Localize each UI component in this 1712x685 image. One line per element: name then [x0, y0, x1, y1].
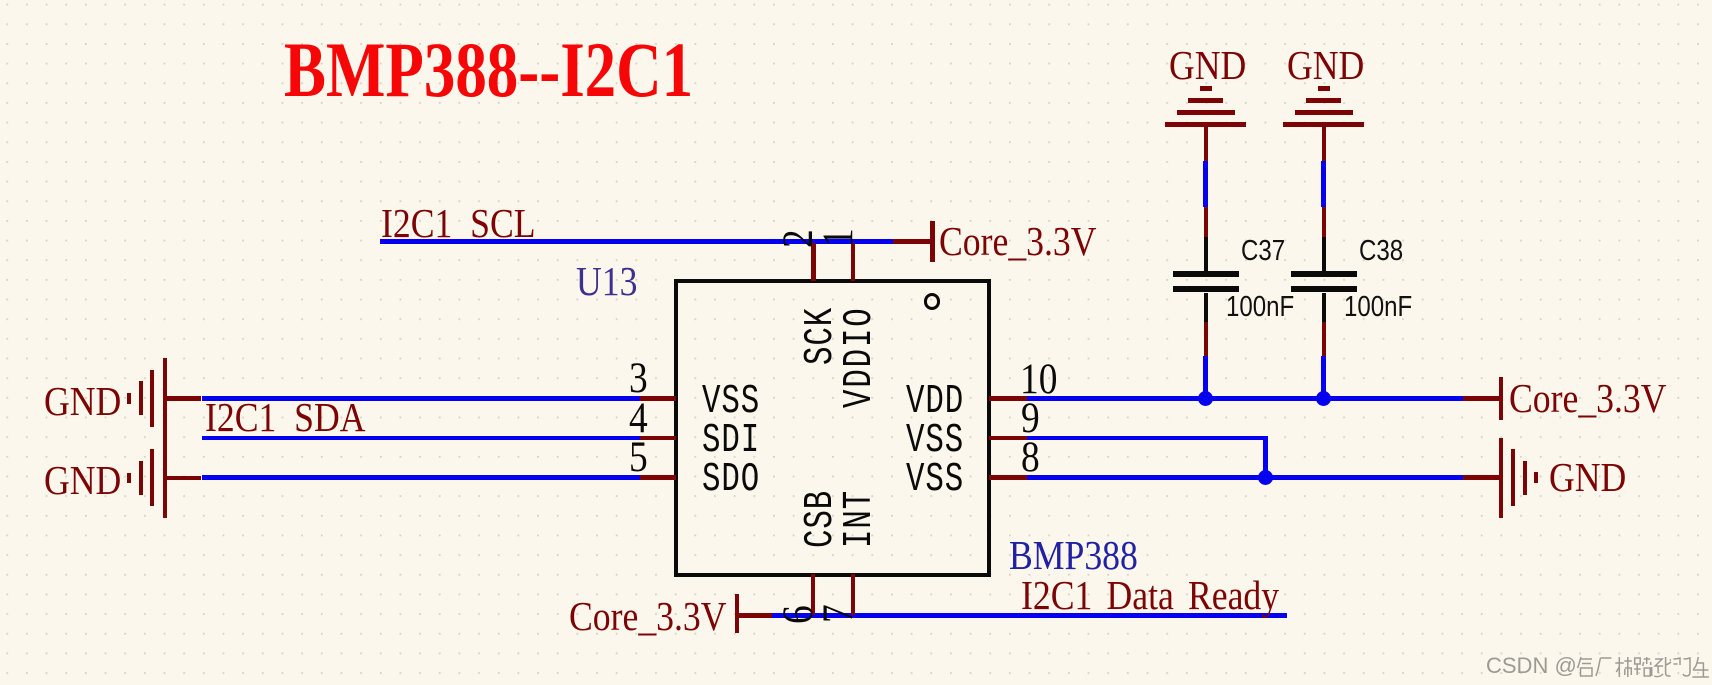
wire pin 9 vertical drop — [1263, 436, 1268, 480]
junction node pin8/pin9 — [1258, 470, 1273, 485]
capacitor C38 designator — [1359, 235, 1403, 268]
pin 1 stub U13 VDDIO — [851, 243, 856, 282]
pin name VSS — [702, 379, 760, 425]
net label I2C1_Data_Ready — [1021, 571, 1279, 619]
net label I2C1_SDA — [205, 393, 366, 441]
wire stub to Core_3.3V top — [893, 239, 930, 244]
pin name VSS right-9 — [906, 418, 964, 464]
pin 4 stub U13 SDI — [640, 436, 677, 441]
wire C38 to node — [1321, 356, 1326, 398]
pin name INT — [837, 489, 883, 547]
ground GND symbol left-2 — [127, 473, 132, 484]
ground GND left-2 text — [44, 456, 121, 504]
junction node at C38 — [1316, 391, 1331, 406]
power port Core_3.3V top bar — [930, 221, 935, 262]
pin 6 stub U13 CSB — [811, 574, 816, 615]
pin 3 stub U13 VSS — [640, 396, 677, 401]
power port Core_3.3V right text — [1509, 374, 1667, 422]
wire C37 to node — [1203, 356, 1208, 398]
IC U13 part comment BMP388 — [1009, 531, 1138, 579]
pin number 2 — [774, 229, 823, 248]
pin name CSB — [798, 489, 844, 547]
pin name VDDIO — [837, 307, 883, 409]
wire SDO pin 5 row — [202, 475, 640, 480]
wire VSS pin 8 row to GND right — [1027, 475, 1463, 480]
wire VSS pin 3 row — [202, 396, 640, 401]
capacitor C38 pin 2 stub — [1322, 322, 1327, 356]
wire VDD row to Core_3.3V right — [1027, 396, 1463, 401]
power port Core_3.3V bottom text — [569, 592, 727, 640]
title BMP388--I2C1 — [284, 25, 693, 115]
capacitor C37 pin 2 stub — [1204, 322, 1209, 356]
capacitor C38 value 100nF — [1344, 291, 1412, 324]
wire stub GND left-2 — [165, 476, 202, 481]
capacitor C37 designator — [1241, 235, 1285, 268]
ground GND symbol above C38 — [1318, 86, 1330, 91]
pin 7 stub U13 INT — [851, 574, 856, 615]
pin number 9 — [1021, 394, 1040, 443]
pin name SDI — [702, 418, 760, 464]
net label I2C1_SCL — [381, 199, 536, 247]
pin number 10 — [1020, 355, 1057, 404]
pin 9 stub U13 VSS — [989, 436, 1027, 441]
pin 2 stub U13 SCK — [811, 243, 816, 282]
pin 10 stub U13 VDD — [989, 396, 1027, 401]
wire I2C1_SCL horizontal — [380, 239, 893, 244]
pin number 1 — [814, 228, 863, 247]
wire GND to C37 — [1203, 161, 1208, 207]
pin name SCK — [798, 307, 844, 365]
capacitor C37 value 100nF — [1226, 291, 1294, 324]
pin number 3 — [629, 354, 648, 403]
pin name SDO — [702, 457, 760, 503]
capacitor C37 pin 1 stub — [1204, 207, 1209, 237]
pin number 5 — [629, 433, 648, 482]
junction node at C37 — [1198, 391, 1213, 406]
pin number 7 — [814, 604, 863, 623]
ground GND symbol above C37 — [1200, 86, 1212, 91]
IC U13 BMP388 body — [674, 279, 991, 576]
pin 5 stub U13 SDO — [640, 475, 677, 480]
wire stub Core_3.3V bottom — [739, 613, 772, 618]
capacitor C37 — [1204, 237, 1208, 271]
capacitor C38 pin 1 stub — [1322, 207, 1327, 237]
capacitor C38 — [1322, 237, 1326, 271]
wire INT row bottom — [772, 613, 1287, 618]
ground GND top-left of C37 text — [1169, 41, 1246, 89]
ground GND right text — [1549, 453, 1626, 501]
pin 8 stub U13 VSS — [989, 475, 1027, 480]
ground GND left-1 text — [44, 377, 121, 425]
wire VSS pin 9 row horizontal — [1027, 436, 1267, 441]
pin name VSS right-8 — [906, 457, 964, 503]
ground GND symbol left-1 — [127, 393, 132, 404]
pin name VDD — [906, 379, 964, 425]
pin number 8 — [1021, 433, 1040, 482]
power port Core_3.3V right bar — [1499, 377, 1504, 420]
watermark CSDN — [1486, 653, 1577, 679]
op-amp U13 designator — [576, 257, 637, 305]
pin number 4 — [629, 394, 648, 443]
power port Core_3.3V top text — [939, 217, 1097, 265]
ground GND top-right of C38 text — [1287, 41, 1364, 89]
wire stub GND right — [1463, 475, 1498, 480]
pin number 6 — [774, 605, 823, 624]
power port Core_3.3V bottom bar — [735, 594, 740, 633]
wire SDI pin 4 row — [202, 436, 640, 441]
wire GND to C38 — [1321, 161, 1326, 207]
wire stub GND left-1 — [165, 396, 202, 401]
wire stub Core_3.3V right — [1463, 396, 1498, 401]
ground GND right symbol — [1499, 438, 1504, 518]
pin-1 indicator circle — [924, 293, 941, 310]
watermark chinese glyph blocks — [1576, 655, 1712, 681]
